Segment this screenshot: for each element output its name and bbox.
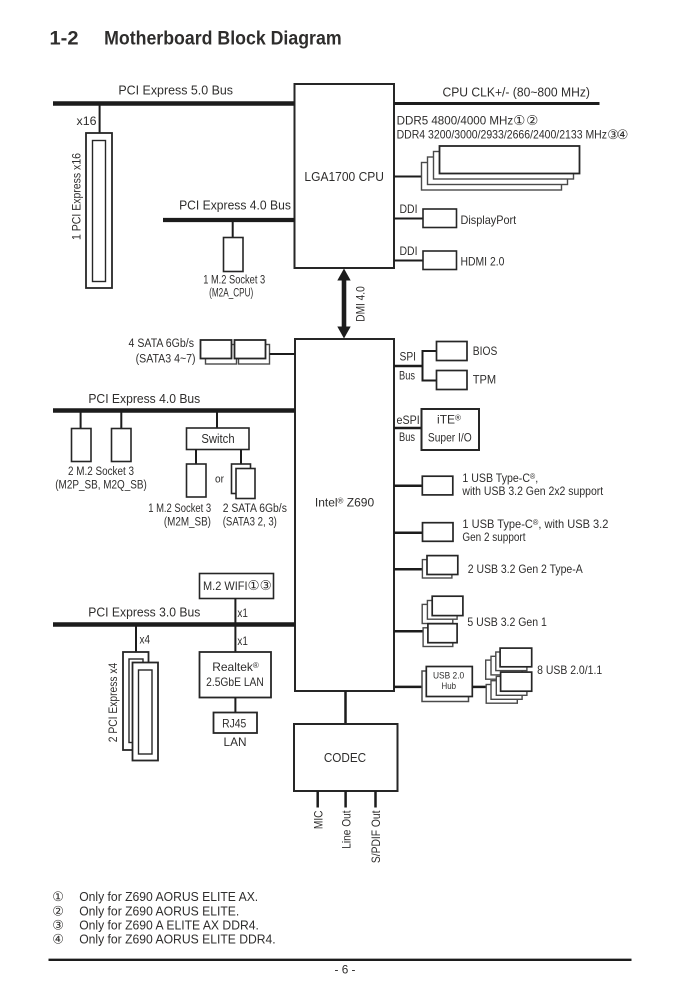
connector DIMM memory slots stack (4) [422, 146, 580, 190]
svg-text:5 USB 3.2 Gen 1: 5 USB 3.2 Gen 1 [467, 615, 547, 629]
wire DDI 1 to DisplayPort [394, 218, 423, 220]
wire Line Out stub [344, 791, 347, 808]
svg-text:(M2M_SB): (M2M_SB) [164, 516, 211, 528]
svg-text:1 PCI Express x16: 1 PCI Express x16 [70, 153, 84, 240]
svg-text:①: ① [248, 578, 260, 593]
svg-text:PCI Express 4.0 Bus: PCI Express 4.0 Bus [179, 198, 291, 213]
wire Realtek to RJ45 [234, 698, 236, 713]
svg-text:PCI Express 4.0 Bus: PCI Express 4.0 Bus [88, 391, 200, 406]
svg-text:1 USB Type-C®,: 1 USB Type-C®, [462, 471, 538, 485]
block CODEC [294, 724, 398, 791]
svg-text:LAN: LAN [224, 735, 247, 749]
CPU block LGA1700 [295, 84, 395, 268]
svg-text:Only for Z690 AORUS ELITE.: Only for Z690 AORUS ELITE. [79, 903, 239, 918]
svg-text:or: or [215, 473, 224, 485]
svg-text:Hub: Hub [442, 681, 457, 692]
svg-text:x16: x16 [77, 114, 97, 128]
connector PCIe x4 slot front [133, 663, 159, 761]
svg-text:- 6 -: - 6 - [335, 963, 356, 977]
svg-text:RJ45: RJ45 [222, 716, 246, 730]
svg-text:Only for Z690 AORUS ELITE DDR4: Only for Z690 AORUS ELITE DDR4. [79, 932, 276, 947]
connector M2Q_SB socket [112, 429, 132, 462]
connector 4 SATA stack pair 2 [235, 340, 270, 364]
svg-text:DDR5 4800/4000 MHz: DDR5 4800/4000 MHz [397, 113, 514, 127]
wire CPU to DIMM stack [394, 176, 422, 178]
wire drop to M2P socket [80, 413, 82, 429]
svg-text:DisplayPort: DisplayPort [461, 213, 517, 227]
svg-text:(SATA3 2, 3): (SATA3 2, 3) [223, 516, 277, 528]
svg-text:②: ② [52, 903, 64, 918]
svg-text:PCI Express 5.0 Bus: PCI Express 5.0 Bus [118, 83, 233, 98]
wire eSPI bus from Z690 [394, 427, 422, 430]
svg-text:③: ③ [260, 578, 272, 593]
svg-text:x1: x1 [237, 606, 248, 620]
bus PCI Express 4.0 upper (thick) [163, 218, 295, 222]
block Realtek 2.5GbE LAN [200, 652, 272, 698]
bus PCI Express 4.0 lower (thick) [53, 408, 295, 413]
wire 5 USB gen1 from Z690 [394, 630, 423, 633]
svg-text:Only for Z690 AORUS ELITE AX.: Only for Z690 AORUS ELITE AX. [79, 889, 258, 904]
svg-text:Only for Z690 A ELITE AX DDR4.: Only for Z690 A ELITE AX DDR4. [79, 917, 259, 932]
wire x4 drop to PCIe x4 slots [135, 627, 137, 653]
wire WIFI to PCIe3 bus [234, 599, 236, 624]
connector PCIe x4 slot back [123, 652, 149, 750]
svg-text:2.5GbE LAN: 2.5GbE LAN [206, 675, 264, 689]
svg-text:Switch: Switch [201, 432, 234, 446]
svg-text:CODEC: CODEC [324, 750, 366, 765]
bus CPU CLK line [394, 102, 600, 105]
block Switch [187, 428, 250, 450]
connector 2 USB Type-A stack [422, 556, 457, 578]
svg-text:2 USB 3.2 Gen 2 Type-A: 2 USB 3.2 Gen 2 Type-A [468, 562, 583, 576]
svg-text:Super I/O: Super I/O [428, 430, 472, 444]
svg-text:1-2: 1-2 [50, 28, 79, 49]
svg-text:2 SATA 6Gb/s: 2 SATA 6Gb/s [223, 503, 287, 515]
wire switch left branch [195, 450, 197, 465]
wire Z690 to CODEC [344, 691, 347, 724]
footer rule [49, 959, 632, 961]
block RJ45 [214, 713, 258, 734]
block HDMI connector [423, 251, 457, 270]
connector 5 USB stack top (3) [422, 596, 463, 623]
svg-text:Intel® Z690: Intel® Z690 [315, 495, 375, 509]
svg-text:Realtek®: Realtek® [212, 660, 259, 674]
connector 5 USB stack bottom (2) [423, 624, 457, 647]
connector PCIEX16 slot [86, 133, 112, 288]
svg-text:DDR4 3200/3000/2933/2666/2400/: DDR4 3200/3000/2933/2666/2400/2133 MHz [397, 128, 607, 142]
wire x16 drop [99, 105, 101, 133]
wire x1 drop to Realtek LAN [234, 627, 236, 653]
wire drop to M2A socket [232, 222, 234, 238]
svg-text:(SATA3 4~7): (SATA3 4~7) [136, 353, 196, 365]
connector 8 USB stack bottom (4) [486, 672, 532, 703]
svg-text:(M2A_CPU): (M2A_CPU) [209, 288, 253, 300]
svg-text:1 M.2 Socket 3: 1 M.2 Socket 3 [148, 503, 211, 515]
svg-text:S/PDIF Out: S/PDIF Out [369, 810, 383, 863]
svg-text:Gen 2 support: Gen 2 support [462, 530, 526, 544]
arrow DMI 4.0 double-headed [337, 269, 350, 339]
svg-text:③: ③ [52, 917, 64, 932]
wire hub to 8 USB stack [472, 686, 486, 689]
svg-text:x4: x4 [140, 633, 151, 647]
connector M2P_SB socket [72, 429, 92, 462]
svg-text:DMI 4.0: DMI 4.0 [353, 286, 367, 322]
svg-text:BIOS: BIOS [473, 344, 498, 358]
wire SATA group to Z690 [270, 353, 296, 355]
block BIOS connector [437, 342, 468, 361]
svg-text:CPU CLK+/- (80~800 MHz): CPU CLK+/- (80~800 MHz) [442, 84, 590, 99]
connector 4 SATA stack pair 1 [201, 340, 237, 364]
svg-text:TPM: TPM [473, 373, 496, 387]
svg-text:x1: x1 [237, 634, 248, 648]
connector M2A_CPU socket [224, 238, 244, 272]
svg-text:USB 2.0: USB 2.0 [433, 670, 464, 681]
svg-text:with USB 3.2 Gen 2x2 support: with USB 3.2 Gen 2x2 support [462, 484, 604, 498]
svg-text:HDMI 2.0: HDMI 2.0 [461, 255, 505, 269]
wire switch right branch [240, 450, 242, 465]
connector 8 USB stack top (4) [486, 648, 532, 679]
wire SPI bus from Z690 [394, 365, 423, 368]
svg-text:eSPI: eSPI [397, 413, 420, 427]
svg-text:④: ④ [52, 932, 64, 947]
svg-text:④: ④ [617, 127, 629, 142]
wire USB-C gen2 from Z690 [394, 531, 423, 534]
bus PCI Express 3.0 (thick) [53, 622, 295, 627]
svg-text:4 SATA 6Gb/s: 4 SATA 6Gb/s [129, 338, 195, 350]
svg-text:(M2P_SB, M2Q_SB): (M2P_SB, M2Q_SB) [55, 480, 147, 492]
wire USB-C gen2x2 from Z690 [394, 484, 422, 487]
connector M2M_SB socket [187, 464, 207, 497]
svg-text:SPI: SPI [400, 350, 417, 364]
bus PCI Express 5.0 (thick) [53, 101, 295, 106]
svg-text:Bus: Bus [399, 430, 415, 444]
svg-text:Bus: Bus [399, 369, 415, 383]
svg-text:MIC: MIC [312, 810, 326, 829]
svg-text:M.2 WIFI: M.2 WIFI [203, 579, 248, 593]
svg-text:①: ① [52, 889, 64, 904]
connector USB Type-C gen2 [423, 523, 454, 542]
svg-text:DDI: DDI [400, 244, 418, 258]
block DisplayPort connector [423, 209, 457, 228]
block USB 2.0 Hub with shadow [422, 667, 472, 702]
wire DDI 2 to HDMI [394, 260, 423, 262]
svg-text:DDI: DDI [400, 202, 418, 216]
wire SPI bracket to BIOS and TPM [423, 351, 438, 381]
svg-text:Motherboard Block Diagram: Motherboard Block Diagram [104, 28, 342, 49]
svg-text:8 USB 2.0/1.1: 8 USB 2.0/1.1 [537, 663, 602, 677]
chipset block Intel Z690 [295, 339, 394, 691]
wire USB-A gen2 from Z690 [394, 568, 422, 571]
svg-text:LGA1700 CPU: LGA1700 CPU [304, 169, 384, 184]
wire hub from Z690 [394, 686, 422, 689]
wire drop to M2Q socket [120, 413, 122, 429]
block TPM connector [437, 371, 468, 390]
connector 2 SATA stack (SATA3 2,3) [232, 464, 256, 499]
svg-text:1 M.2 Socket 3: 1 M.2 Socket 3 [203, 274, 265, 286]
block M.2 WIFI [200, 574, 274, 599]
wire S/PDIF Out stub [374, 791, 377, 808]
svg-text:PCI Express 3.0 Bus: PCI Express 3.0 Bus [88, 605, 200, 620]
svg-text:2 M.2 Socket 3: 2 M.2 Socket 3 [68, 466, 134, 478]
svg-text:2 PCI Express x4: 2 PCI Express x4 [106, 662, 120, 742]
svg-text:①: ① [513, 113, 525, 128]
connector USB Type-C 2x2 [422, 476, 453, 495]
svg-text:Line Out: Line Out [339, 810, 353, 849]
block iTE Super I/O [422, 409, 480, 450]
wire bus to Switch [216, 413, 218, 429]
svg-text:②: ② [526, 113, 538, 128]
wire MIC stub [316, 791, 319, 808]
